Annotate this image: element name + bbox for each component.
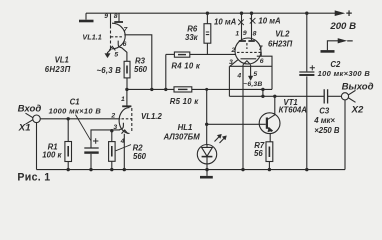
svg-text:5: 5 [253, 71, 257, 78]
svg-text:6: 6 [260, 58, 264, 65]
svg-text:33к: 33к [185, 33, 199, 42]
svg-text:2: 2 [231, 47, 236, 54]
svg-text:10 мА: 10 мА [214, 18, 237, 27]
svg-text:56: 56 [254, 149, 263, 158]
svg-text:+: + [346, 8, 353, 20]
svg-text:10 мА: 10 мА [258, 16, 281, 25]
svg-text:VL1.2: VL1.2 [141, 112, 162, 121]
svg-text:Выход: Выход [342, 81, 374, 92]
svg-text:4: 4 [236, 72, 241, 79]
svg-text:9: 9 [104, 13, 108, 20]
svg-text:200 В: 200 В [329, 21, 356, 32]
svg-text:1: 1 [121, 96, 125, 103]
svg-text:3: 3 [113, 124, 117, 131]
svg-text:Вход: Вход [18, 104, 42, 115]
svg-text:8: 8 [253, 30, 257, 37]
svg-text:−: − [347, 36, 354, 48]
svg-text:6: 6 [123, 41, 127, 48]
svg-text:C1: C1 [70, 98, 80, 107]
svg-text:КТ604А: КТ604А [279, 105, 308, 114]
svg-text:R4 10 к: R4 10 к [171, 61, 200, 70]
svg-text:560: 560 [134, 65, 148, 74]
svg-text:2: 2 [110, 112, 115, 119]
svg-text:6Н23П: 6Н23П [268, 40, 293, 49]
svg-text:6Н23П: 6Н23П [45, 65, 71, 74]
svg-text:VL1: VL1 [55, 56, 69, 65]
svg-text:C3: C3 [319, 106, 330, 115]
svg-text:R5 10 к: R5 10 к [170, 97, 199, 106]
svg-text:~6,3В: ~6,3В [243, 81, 262, 88]
svg-text:VL2: VL2 [275, 30, 290, 39]
svg-text:100 мк×300 В: 100 мк×300 В [318, 69, 371, 78]
svg-text:9: 9 [243, 30, 247, 37]
svg-text:3: 3 [229, 59, 233, 66]
svg-text:АЛ307БМ: АЛ307БМ [163, 133, 201, 142]
svg-text:1000 мк×10 В: 1000 мк×10 В [49, 107, 102, 116]
svg-text:X2: X2 [351, 105, 364, 116]
svg-text:НL1: НL1 [178, 123, 193, 132]
svg-text:4: 4 [120, 138, 125, 145]
svg-text:8: 8 [114, 13, 118, 20]
svg-text:VL1.1: VL1.1 [82, 32, 101, 41]
svg-text:C2: C2 [330, 60, 341, 69]
svg-text:4 мк×: 4 мк× [313, 116, 335, 125]
svg-text:560: 560 [133, 152, 147, 161]
svg-text:~6,3 В: ~6,3 В [97, 66, 122, 75]
svg-text:X1: X1 [18, 123, 31, 134]
svg-text:7: 7 [259, 45, 264, 52]
svg-text:7: 7 [124, 27, 129, 34]
svg-text:×250 В: ×250 В [314, 126, 340, 135]
svg-text:1: 1 [235, 30, 239, 37]
svg-text:100 к: 100 к [42, 151, 62, 160]
svg-text:5: 5 [114, 51, 118, 58]
svg-text:Рис. 1: Рис. 1 [17, 171, 50, 183]
